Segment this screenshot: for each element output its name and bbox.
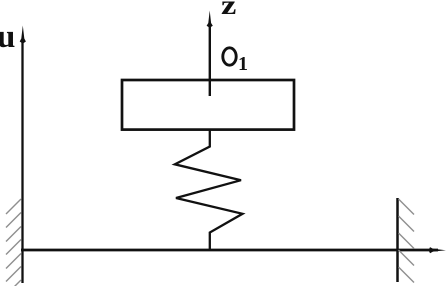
mass block rectangle <box>122 80 294 130</box>
u-axis arrowhead <box>20 26 26 44</box>
label O1 subscript <box>238 53 248 76</box>
u-axis (left vertical axis line) <box>21 40 23 283</box>
bottom horizontal axis <box>21 249 438 252</box>
spring <box>175 129 243 250</box>
label u <box>0 19 15 56</box>
right wall hatching <box>399 199 415 283</box>
label O1 ring <box>223 48 236 65</box>
z-axis line <box>209 22 211 96</box>
z-axis arrowhead <box>207 11 213 28</box>
label z <box>221 0 236 21</box>
bottom axis arrowhead <box>429 247 446 253</box>
right wall line <box>396 198 399 282</box>
left wall hatching <box>6 199 21 286</box>
